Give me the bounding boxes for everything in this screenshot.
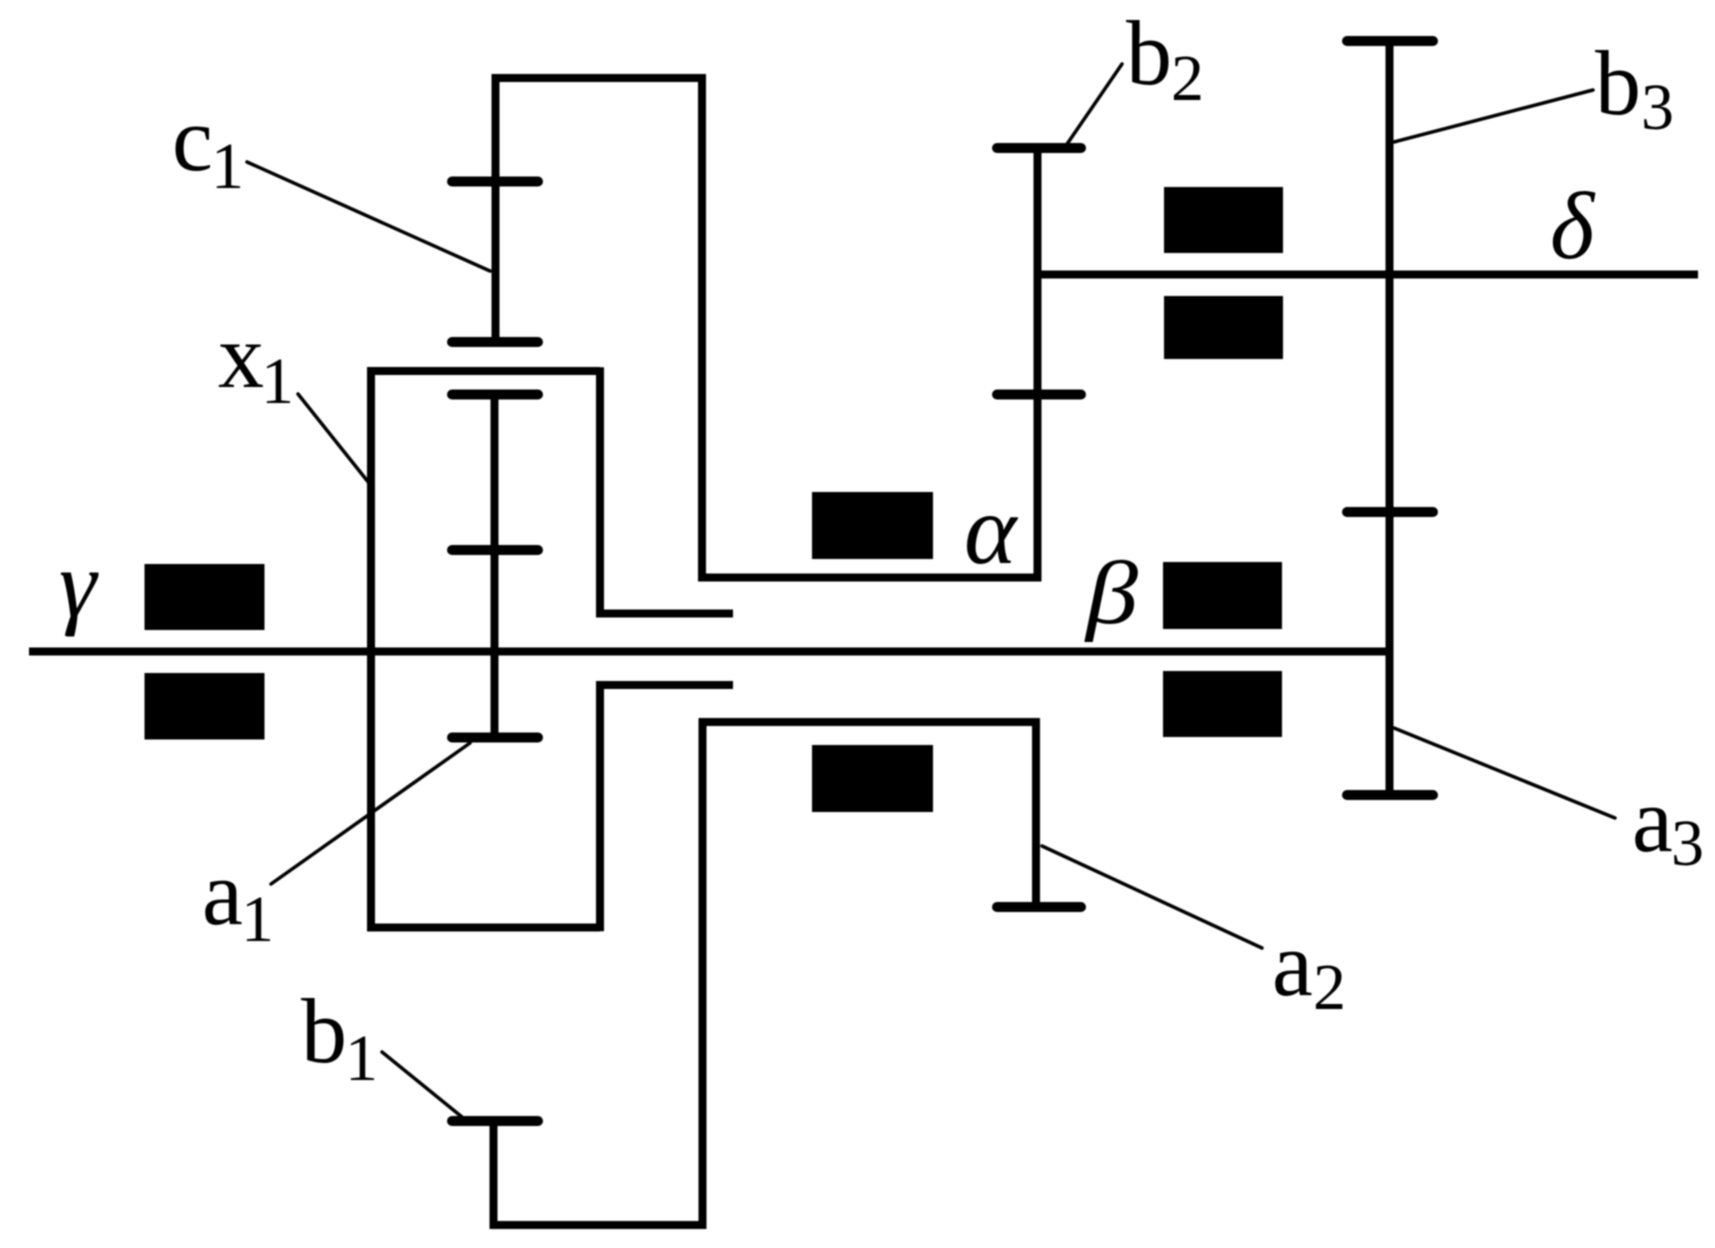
gear tick b3 top — [1347, 36, 1433, 46]
gear tick c1 upper — [452, 177, 538, 187]
gear tick a3 middle — [1347, 507, 1433, 517]
wire: top bracket c1 shaft to alpha carrier and b2 shaft — [496, 78, 1038, 578]
svg-text:x: x — [218, 305, 264, 407]
leader line x1 — [298, 394, 369, 483]
svg-text:1: 1 — [211, 130, 244, 203]
bearing block beta lower — [1163, 671, 1282, 737]
carrier frame x1 right lower edge with fork prong — [600, 685, 733, 931]
leader line b2 — [1065, 64, 1122, 147]
carrier frame x1 box left/top/bottom — [371, 371, 600, 928]
leader line c1 — [247, 162, 490, 271]
svg-text:β: β — [1084, 544, 1139, 644]
svg-text:1: 1 — [261, 345, 294, 418]
svg-text:2: 2 — [1171, 42, 1204, 115]
bearing block delta upper — [1164, 187, 1283, 253]
svg-text:a: a — [1272, 913, 1313, 1015]
svg-text:a: a — [202, 842, 243, 944]
gear tick planet bottom a1 — [452, 733, 538, 743]
svg-text:b: b — [1126, 2, 1172, 104]
gear tick b2 top — [997, 143, 1081, 153]
svg-text:b: b — [1595, 32, 1641, 134]
svg-text:1: 1 — [241, 883, 274, 956]
gear tick a3 bottom — [1347, 790, 1433, 800]
svg-text:3: 3 — [1641, 71, 1674, 144]
bearing block beta upper — [1163, 562, 1282, 629]
svg-text:3: 3 — [1671, 807, 1704, 880]
planet shaft inside x1 — [491, 395, 499, 738]
gear tick planet middle — [452, 545, 538, 555]
leader line a1 — [271, 743, 470, 884]
gear tick b1 — [452, 1116, 538, 1126]
gear tick c1 lower — [452, 337, 538, 347]
svg-text:γ: γ — [59, 531, 99, 637]
bearing block delta lower — [1164, 296, 1283, 359]
svg-text:2: 2 — [1313, 951, 1346, 1024]
bearing block alpha — [812, 492, 933, 559]
shaft b3-a3 vertical — [1386, 41, 1394, 795]
leader line a3 — [1394, 728, 1615, 818]
svg-text:c: c — [172, 88, 213, 190]
gear tick b2 lower — [997, 390, 1081, 400]
leader line b1 — [382, 1052, 462, 1117]
svg-text:b: b — [301, 980, 347, 1082]
leader line a2 — [1042, 846, 1262, 948]
svg-text:a: a — [1632, 769, 1673, 871]
bearing block gamma upper — [145, 564, 265, 630]
svg-text:α: α — [964, 474, 1019, 585]
bearing block gamma lower — [145, 673, 265, 740]
gear tick a2 — [997, 902, 1081, 912]
carrier frame x1 right upper edge with fork prong — [600, 367, 733, 613]
shaft delta — [1038, 271, 1699, 279]
gear tick planet top — [452, 390, 538, 400]
leader line b3 — [1394, 90, 1593, 142]
main shaft gamma-beta axis — [29, 648, 1390, 656]
svg-text:δ: δ — [1550, 173, 1596, 279]
bearing block a2 center — [812, 745, 933, 812]
svg-text:1: 1 — [345, 1022, 378, 1095]
wire: a2 frame and b1 link — [494, 722, 1037, 1225]
